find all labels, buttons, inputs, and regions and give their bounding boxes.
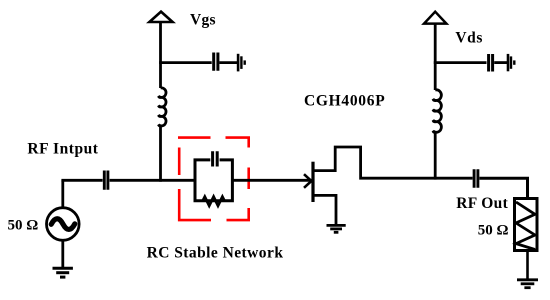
wire Vds bypass branch: [434, 61, 487, 64]
wire Vgs vertical upper: [159, 22, 162, 88]
capacitor Vgs bypass: [214, 53, 218, 71]
RC network rectangle: [195, 160, 232, 201]
inductor gate bias: [159, 88, 166, 126]
wire Vds vertical upper: [434, 23, 437, 90]
load resistor box: [515, 199, 538, 251]
wire cap to ground right: [494, 61, 507, 64]
wire input horizontal left of cap: [61, 179, 102, 182]
ground below load: [517, 278, 538, 281]
power symbol Vds triangle: [424, 12, 446, 24]
transistor gate bar: [311, 162, 314, 202]
resistor zigzag in RC network: [203, 197, 225, 206]
svg-text:RF Out: RF Out: [456, 195, 508, 212]
wire output cap to load corner: [480, 178, 528, 198]
wire load to ground: [526, 251, 529, 280]
svg-text:CGH4006P: CGH4006P: [304, 92, 385, 109]
load resistor zigzag: [516, 202, 535, 250]
transistor source connection: [313, 195, 336, 225]
ground (sideways) at Vds bypass: [507, 54, 510, 71]
wire input horizontal right of cap to RC network: [110, 179, 195, 182]
ground at transistor source: [327, 224, 346, 227]
inductor drain bias: [433, 90, 441, 133]
wire source to ground: [61, 240, 64, 268]
wire RC network to gate: [232, 179, 311, 182]
svg-text:50 Ω: 50 Ω: [478, 223, 509, 239]
ground (sideways) at Vgs bypass: [237, 54, 240, 72]
svg-text:Vgs: Vgs: [190, 11, 216, 28]
RC stable network dashed red box: [178, 138, 249, 221]
svg-text:RF Intput: RF Intput: [27, 140, 98, 157]
svg-text:RC Stable Network: RC Stable Network: [147, 245, 284, 262]
wire Vgs vertical lower to input line: [159, 126, 162, 182]
source V1 circle: [47, 208, 80, 241]
wire Vgs bypass branch horizontal: [159, 61, 212, 64]
source V1 sine wave: [51, 219, 75, 230]
power symbol Vgs triangle: [149, 12, 172, 22]
wire input riser from source: [61, 180, 64, 208]
ground below source: [53, 267, 73, 270]
svg-text:50 Ω: 50 Ω: [8, 217, 39, 233]
wire Vds vertical lower to output line: [434, 132, 437, 179]
wire cap to ground: [219, 61, 237, 64]
transistor drain connection staircase: [313, 147, 473, 178]
capacitor Vds bypass: [489, 54, 493, 72]
capacitor in RC network: [213, 151, 218, 166]
capacitor output series: [474, 169, 478, 188]
capacitor input series C1: [104, 171, 108, 190]
transistor gate arrowhead: [304, 174, 311, 188]
svg-text:Vds: Vds: [455, 30, 483, 47]
